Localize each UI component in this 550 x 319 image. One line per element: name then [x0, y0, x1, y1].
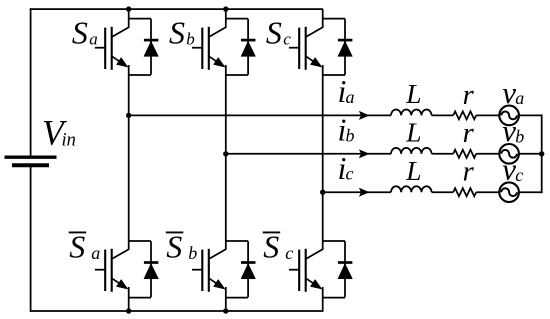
- junction: output node phase b: [223, 151, 228, 156]
- svg-text:v: v: [502, 152, 516, 187]
- wire: source v_c to right rail: [519, 191, 543, 193]
- inductor L phase a: [391, 109, 432, 115]
- inductor L phase c: [391, 186, 432, 192]
- inductor L phase b: [391, 148, 432, 154]
- wire: top DC rail: [30, 8, 323, 10]
- wire: leg a top diode branch (upper): [129, 18, 151, 20]
- wire: leg a top diode branch (lower): [129, 74, 151, 76]
- diode D_c (antiparallel): [338, 19, 353, 75]
- junction: node a (top rail): [126, 6, 131, 11]
- svg-text:a: a: [515, 88, 524, 108]
- wire: leg b bottom diode branch (lower): [226, 297, 248, 299]
- wire: between L and r phase c: [432, 191, 454, 193]
- battery Vin positive plate: [5, 156, 57, 159]
- svg-text:L: L: [405, 78, 421, 109]
- transistor S̄_c (IGBT): [289, 249, 323, 292]
- label i_b: [338, 111, 355, 147]
- wire: between r and source phase c: [476, 191, 499, 193]
- wire: between r and source phase b: [476, 153, 499, 155]
- svg-text:b: b: [188, 243, 197, 263]
- transistor S̄_b (IGBT): [192, 249, 226, 292]
- diode D̄_c (antiparallel): [338, 241, 353, 297]
- wire: leg c top diode branch (lower): [323, 74, 345, 76]
- wire: phase a output line: [129, 114, 391, 116]
- label v_c: [502, 152, 523, 187]
- junction: output node phase c: [320, 190, 325, 195]
- resistor r phase c: [453, 188, 476, 196]
- transistor S_c (IGBT): [289, 27, 323, 70]
- wire: leg a bottom diode branch (upper): [129, 240, 151, 242]
- svg-text:r: r: [463, 80, 475, 111]
- wire: leg c bottom emitter lead to bottom rail: [322, 287, 324, 311]
- resistor r phase a: [453, 111, 476, 119]
- svg-text:v: v: [502, 113, 516, 148]
- svg-text:S: S: [169, 15, 185, 51]
- wire: leg a bottom diode branch (lower): [129, 297, 151, 299]
- wire: leg c emitter lead down to output node: [322, 65, 324, 192]
- label S̄_b (S-bar): [166, 229, 198, 265]
- svg-text:S: S: [266, 15, 282, 51]
- wire: between r and source phase a: [476, 114, 499, 116]
- label i_a: [338, 73, 355, 109]
- wire: leg a collector lead from top rail: [128, 9, 130, 28]
- svg-text:S: S: [263, 229, 279, 265]
- wire: leg c top diode branch (upper): [323, 18, 345, 20]
- arrow: current i_c direction: [359, 188, 369, 196]
- svg-text:b: b: [186, 30, 195, 49]
- wire: leg b emitter lead down to output node: [225, 65, 227, 154]
- arrow: current i_a direction: [359, 111, 369, 119]
- wire: leg b top diode branch (upper): [226, 18, 248, 20]
- svg-text:c: c: [285, 243, 293, 263]
- wire: phase b output line: [226, 153, 391, 155]
- junction: node b (bottom rail): [223, 308, 228, 313]
- label S̄_a (S-bar): [69, 229, 101, 265]
- svg-text:b: b: [515, 126, 524, 146]
- svg-text:r: r: [463, 118, 475, 149]
- wire: leg a lower collector lead (output node to bottom IGBT): [128, 115, 130, 250]
- svg-text:c: c: [346, 164, 354, 184]
- junction: neutral node (right rail, phase b): [539, 151, 544, 156]
- transistor S_a (IGBT): [95, 27, 129, 70]
- junction: output node phase a: [126, 113, 131, 118]
- transistor S̄_a (IGBT): [95, 249, 129, 292]
- svg-text:c: c: [515, 165, 523, 185]
- wire: leg c collector lead from top rail: [322, 9, 324, 28]
- svg-text:S: S: [69, 229, 85, 265]
- diode D̄_a (antiparallel): [144, 241, 159, 297]
- resistor r phase b: [453, 150, 476, 158]
- wire: leg a bottom emitter lead to bottom rail: [128, 287, 130, 311]
- wire: leg c lower collector lead (output node to bottom IGBT): [322, 192, 324, 250]
- wire: between L and r phase b: [432, 153, 454, 155]
- wire: leg c bottom diode branch (lower): [323, 297, 345, 299]
- label v_a: [502, 75, 524, 110]
- junction: node b (top rail): [223, 6, 228, 11]
- svg-text:L: L: [405, 155, 421, 186]
- diode D̄_b (antiparallel): [241, 241, 256, 297]
- svg-text:c: c: [283, 30, 291, 49]
- wire: leg b bottom emitter lead to bottom rail: [225, 287, 227, 311]
- label S̄_c (S-bar): [263, 229, 294, 265]
- AC source v_a: [499, 106, 519, 126]
- diode D_b (antiparallel): [241, 19, 256, 75]
- svg-text:a: a: [89, 30, 98, 49]
- wire: leg b top diode branch (lower): [226, 74, 248, 76]
- wire: source v_b to right rail: [519, 153, 543, 155]
- wire: source v_a to right rail: [519, 114, 543, 116]
- label S_c: [266, 15, 291, 51]
- label S_b: [169, 15, 195, 51]
- svg-text:S: S: [166, 229, 182, 265]
- wire: leg b bottom diode branch (upper): [226, 240, 248, 242]
- diode D_a (antiparallel): [144, 19, 159, 75]
- label i_c: [338, 150, 354, 186]
- junction: node a (bottom rail): [126, 308, 131, 313]
- wire: leg c bottom diode branch (upper): [323, 240, 345, 242]
- wire: bottom DC rail: [30, 310, 324, 312]
- wire: right neutral rail: [541, 115, 543, 194]
- wire: leg b lower collector lead (output node to bottom IGBT): [225, 154, 227, 250]
- wire: phase c output line: [323, 191, 391, 193]
- AC source v_b: [499, 144, 519, 164]
- svg-text:v: v: [502, 75, 516, 110]
- label Vin: [42, 113, 76, 153]
- svg-text:r: r: [463, 157, 475, 188]
- label v_b: [502, 113, 524, 148]
- svg-text:L: L: [405, 116, 421, 147]
- wire: leg b collector lead from top rail: [225, 9, 227, 28]
- transistor S_b (IGBT): [192, 27, 226, 70]
- wire: between L and r phase a: [432, 114, 454, 116]
- svg-text:in: in: [62, 131, 76, 151]
- AC source v_c: [499, 182, 519, 202]
- svg-text:a: a: [91, 243, 100, 263]
- wire: left rail lower (Vin - to bottom rail): [30, 167, 32, 312]
- wire: leg a emitter lead down to output node: [128, 65, 130, 115]
- svg-text:S: S: [72, 15, 88, 51]
- wire: left rail upper (Vin + to top rail): [30, 8, 32, 156]
- arrow: current i_b direction: [359, 150, 369, 158]
- svg-text:a: a: [346, 87, 355, 107]
- label S_a: [72, 15, 98, 51]
- svg-text:b: b: [346, 125, 355, 145]
- battery Vin negative plate: [12, 163, 49, 167]
